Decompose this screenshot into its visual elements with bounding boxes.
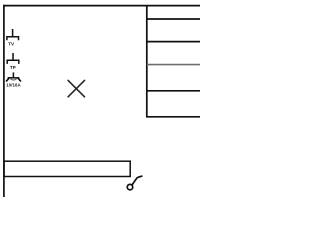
- shelf line 4: [147, 90, 200, 92]
- switch S1: [127, 176, 142, 190]
- wall top: [3, 5, 200, 7]
- shelf line 3 (gray): [147, 64, 200, 66]
- wall right column vertical: [146, 5, 148, 118]
- svg-text:10/16A: 10/16A: [6, 83, 21, 88]
- worktop rectangle: [4, 161, 130, 176]
- socket outlet 10/16A: [6, 72, 21, 81]
- shelf line 5 bottom: [146, 116, 200, 118]
- TP telephone socket: [7, 53, 19, 64]
- svg-text:TV: TV: [8, 42, 15, 47]
- TV antenna socket: [7, 29, 19, 40]
- ceiling lamp cross: [68, 80, 84, 96]
- wall left: [3, 5, 5, 197]
- shelf line 1: [147, 18, 200, 20]
- svg-text:TP: TP: [10, 65, 16, 70]
- shelf line 2: [147, 41, 200, 43]
